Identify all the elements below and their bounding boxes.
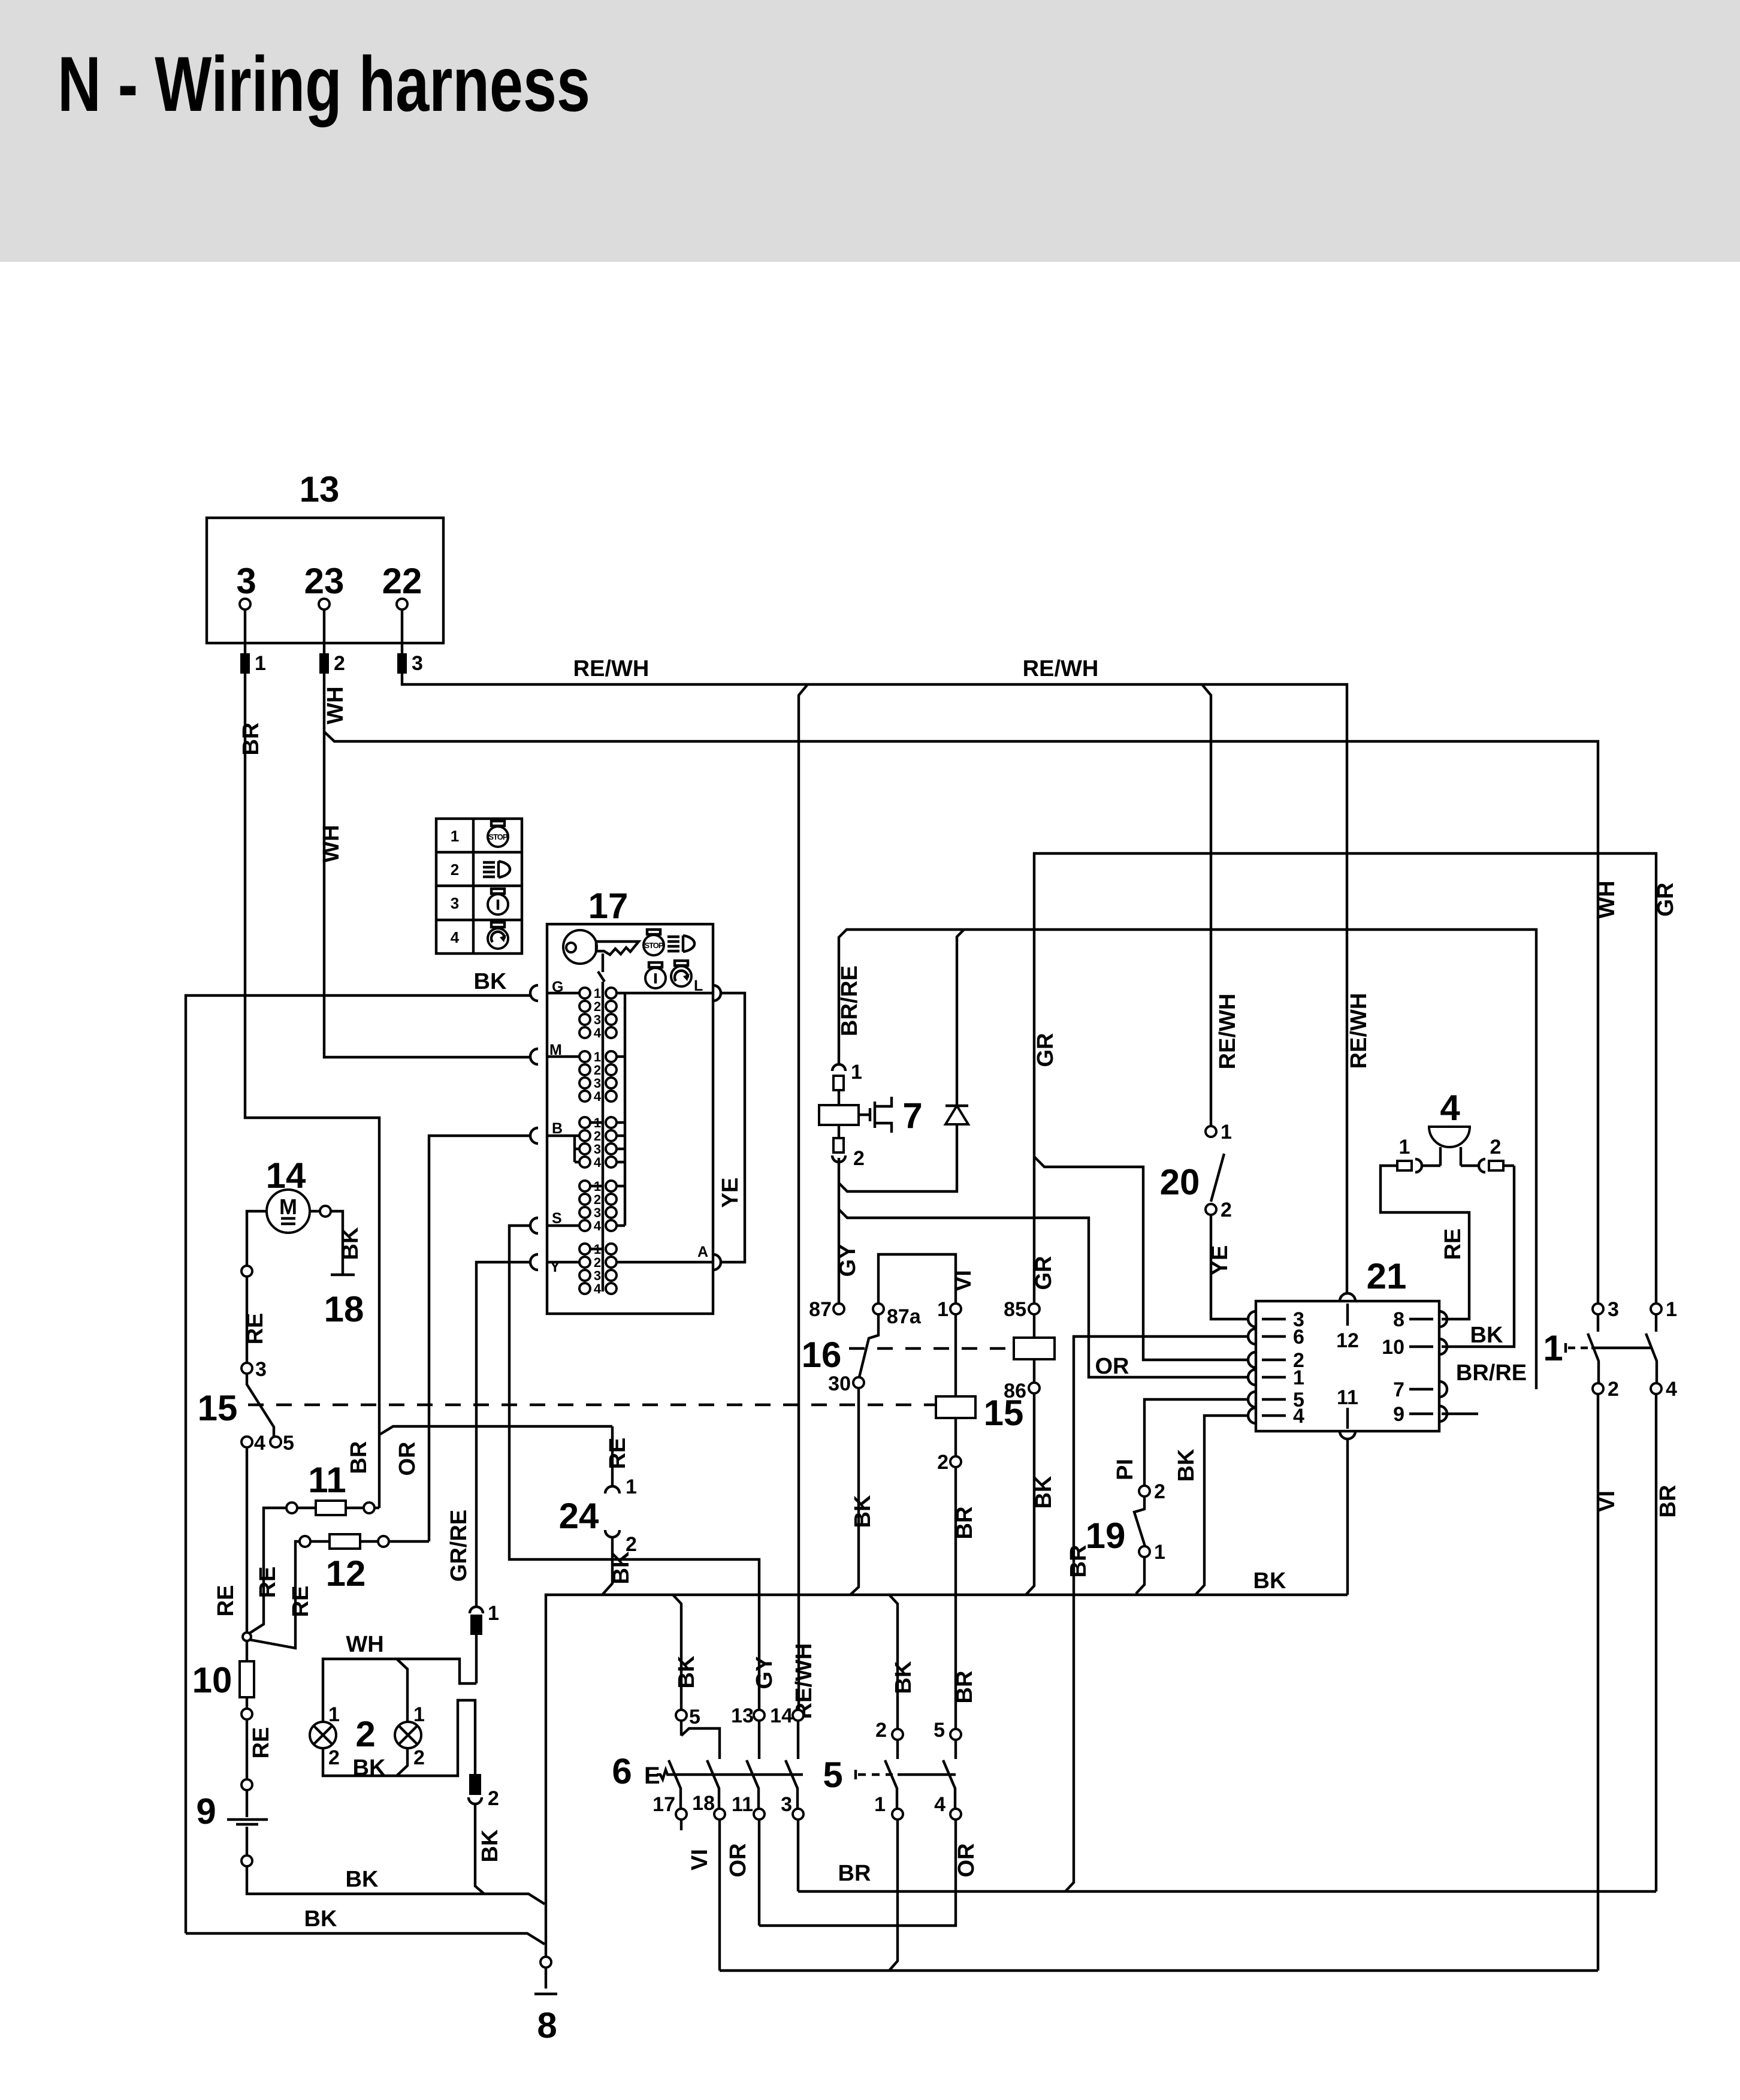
svg-text:RE: RE (255, 1567, 280, 1598)
svg-text:4: 4 (254, 1432, 265, 1455)
svg-text:OR: OR (954, 1843, 979, 1878)
svg-text:RE/WH: RE/WH (1023, 656, 1099, 681)
svg-text:BK: BK (474, 969, 507, 994)
icon headlight in 17 (667, 936, 694, 952)
svg-text:WH: WH (323, 686, 348, 724)
diode across solenoid (839, 930, 968, 1191)
lamp top rail wiring (323, 1659, 476, 1722)
svg-text:1: 1 (1399, 1136, 1410, 1158)
relay 16 contact 87 (809, 1298, 844, 1321)
svg-text:2: 2 (937, 1451, 948, 1474)
svg-text:11: 11 (732, 1793, 753, 1816)
svg-text:BK: BK (674, 1655, 699, 1688)
svg-text:BK: BK (1253, 1568, 1286, 1594)
svg-text:GY: GY (835, 1244, 860, 1277)
svg-text:87a: 87a (887, 1305, 922, 1328)
svg-text:9: 9 (196, 1791, 216, 1832)
svg-text:22: 22 (382, 561, 422, 601)
svg-text:5: 5 (823, 1755, 842, 1795)
wire BK from 30 to bus (850, 1388, 859, 1595)
svg-text:11: 11 (308, 1460, 346, 1500)
wire from pin 11 to BK bus (1346, 1439, 1349, 1595)
battery 9 (196, 1791, 268, 1866)
svg-text:VI: VI (951, 1270, 976, 1292)
svg-text:13: 13 (300, 469, 340, 509)
wire BR from pin 6 to BR bus (1065, 1336, 1249, 1891)
wire from pin 1 to VI bus (889, 1820, 898, 1971)
legend icon stop lamp (488, 821, 508, 847)
svg-text:4: 4 (1440, 1088, 1460, 1128)
svg-text:GR: GR (1033, 1033, 1058, 1067)
switch 15 contact (198, 1358, 294, 1455)
wire fuse 11 to junction (249, 1508, 286, 1634)
svg-text:7: 7 (902, 1096, 922, 1136)
svg-text:WH: WH (346, 1632, 383, 1657)
svg-text:RE/WH: RE/WH (1215, 994, 1240, 1070)
lamp bottom rail wiring (323, 1700, 475, 1776)
wire battery to BK bus (247, 1866, 545, 1904)
svg-text:BK: BK (1470, 1323, 1503, 1348)
switch 6 pole B blade and pin 18 (692, 1760, 725, 1820)
svg-text:BR: BR (346, 1441, 371, 1474)
switch 6 pole C pin 13, blade, pin 11 (731, 1704, 765, 1820)
svg-text:5: 5 (689, 1706, 700, 1728)
svg-text:1: 1 (1543, 1328, 1563, 1368)
svg-text:PI: PI (1113, 1459, 1138, 1480)
svg-text:19: 19 (1086, 1516, 1126, 1556)
horn 4 (1429, 1088, 1470, 1166)
wire OR to pin 1 (839, 1209, 1249, 1377)
wire OR from key B down to fuse 12 (429, 1136, 531, 1541)
relay 16 coil terminal 85 (1004, 1298, 1040, 1321)
icon flasher lamp in 17 (671, 961, 691, 986)
svg-text:3: 3 (255, 1358, 267, 1381)
svg-text:21: 21 (1367, 1256, 1407, 1296)
key switch shaft line (602, 982, 604, 1292)
svg-text:1: 1 (626, 1476, 637, 1498)
relay 15 coil (936, 1314, 1023, 1456)
branch to right lamp top (397, 1659, 407, 1722)
svg-text:17: 17 (652, 1793, 675, 1816)
wire BR/RE top (839, 930, 1536, 1389)
wire BK from key G to left rail (186, 995, 531, 1933)
branch BR to RE connector 24 (379, 1426, 612, 1435)
legend icon flasher lamp (488, 922, 508, 949)
switch 20 (1160, 1121, 1232, 1221)
wire PI from pin 5 to switch 19 (1144, 1399, 1249, 1486)
wire BR from coil to switch 5 pin 5 (954, 1467, 957, 1729)
svg-text:BR: BR (952, 1671, 977, 1704)
wire RE from horn to box 21 pin 8 (1380, 1166, 1469, 1319)
svg-text:11: 11 (1337, 1386, 1358, 1409)
switch 6 pole A blade and pin 17 (652, 1760, 687, 1830)
wire BK from pin 4 to bus (1196, 1416, 1249, 1594)
svg-text:GY: GY (752, 1657, 777, 1689)
svg-text:OR: OR (1095, 1354, 1129, 1379)
headlamps 2 (310, 1703, 425, 1769)
svg-text:RE: RE (1440, 1229, 1466, 1260)
switch 6 pole D pin 14, blade, pin 3 (770, 1704, 803, 1820)
svg-text:BK: BK (346, 1867, 379, 1892)
svg-text:13: 13 (731, 1704, 754, 1727)
svg-text:STOP: STOP (488, 832, 507, 841)
svg-text:1: 1 (1666, 1298, 1677, 1321)
svg-text:RE: RE (243, 1313, 268, 1345)
svg-text:BR: BR (838, 1861, 871, 1886)
relay 16 blade and contact 30 (802, 1314, 878, 1395)
GR/RE inline connector at lamps (470, 1602, 499, 1683)
svg-text:VI: VI (687, 1849, 712, 1870)
svg-text:4: 4 (594, 1281, 602, 1296)
switch 6 pole A pin 5 (676, 1706, 700, 1736)
box 21 pin 11 bottom (1337, 1386, 1358, 1439)
svg-text:4: 4 (594, 1155, 602, 1170)
svg-text:3: 3 (451, 894, 459, 912)
svg-text:BK: BK (850, 1495, 875, 1528)
legend table (436, 819, 522, 954)
svg-text:10: 10 (192, 1660, 232, 1700)
wire GR/RE from key Y down to lamps (476, 1262, 531, 1607)
svg-text:YE: YE (1207, 1245, 1232, 1276)
svg-text:6: 6 (612, 1751, 632, 1791)
wire BR from pin 1 down and over (245, 674, 379, 1508)
GR branch to box 21 pin 2 (1034, 1157, 1249, 1360)
wire WH from pin 2 down to key switch M (324, 674, 531, 1057)
BK bus middle (546, 1595, 1348, 1989)
solenoid 7 connector 1 (832, 1061, 862, 1090)
svg-text:2: 2 (853, 1147, 865, 1170)
svg-text:VI: VI (1594, 1490, 1620, 1512)
key switch left edge connector arcs (530, 985, 538, 1270)
svg-text:2: 2 (488, 1787, 499, 1810)
wire junction to fuse 10 (246, 1641, 248, 1661)
svg-text:A: A (697, 1244, 708, 1260)
svg-text:4: 4 (594, 1025, 602, 1040)
svg-text:2: 2 (334, 652, 345, 675)
switch 1 (1543, 1328, 1651, 1368)
box 21 right pin stubs and numbers (1382, 1308, 1433, 1426)
svg-text:1: 1 (874, 1793, 886, 1816)
relay 16 coil terminal 86 (1004, 1380, 1040, 1402)
relay 15 coil terminal 2 (937, 1451, 961, 1474)
switch 5 (823, 1755, 956, 1795)
svg-text:BR: BR (952, 1507, 977, 1540)
ground 8 (534, 1957, 557, 2045)
key switch right edge connector arcs (713, 985, 721, 1270)
svg-text:8: 8 (1393, 1308, 1404, 1331)
key icon (563, 930, 639, 972)
horn connector 1 (1397, 1136, 1440, 1172)
svg-text:2: 2 (355, 1714, 375, 1754)
ground 18 (324, 1275, 364, 1329)
svg-text:17: 17 (588, 886, 629, 926)
wire YE from switch 20 to box 21 pin 3 (1211, 1215, 1249, 1319)
svg-text:15: 15 (198, 1388, 238, 1428)
wire OR from pin 4 to OR bus (759, 1820, 956, 1926)
svg-text:4: 4 (934, 1793, 945, 1816)
solenoid 7 connector 2 (832, 1138, 865, 1170)
BK rail bottom to ground 8 (186, 1933, 545, 1944)
relay 16 coil (1014, 1314, 1055, 1383)
svg-text:BK: BK (1174, 1449, 1199, 1482)
svg-text:1: 1 (488, 1602, 499, 1625)
svg-text:1: 1 (1221, 1121, 1232, 1143)
svg-text:4: 4 (594, 1089, 602, 1104)
svg-text:24: 24 (559, 1496, 599, 1536)
svg-text:6: 6 (1293, 1326, 1304, 1348)
connector 24 (559, 1426, 637, 1594)
svg-text:BK: BK (338, 1227, 363, 1260)
branch from right lamp bottom (397, 1748, 407, 1776)
wire BK from bus to switch 5 pin 2 (889, 1595, 898, 1729)
wire GY from solenoid to relay 16 pin 87 (838, 1158, 840, 1304)
wire motor left to switch 15 (247, 1211, 267, 1266)
switch 1 pole A: pin 3, blade, pin 2 (1588, 1298, 1619, 1401)
svg-text:5: 5 (934, 1719, 945, 1742)
svg-text:RE/WH: RE/WH (573, 656, 650, 681)
svg-text:YE: YE (718, 1178, 743, 1208)
svg-text:WH: WH (319, 825, 344, 862)
key switch group M pins (549, 1042, 617, 1104)
BR bottom bus (798, 1890, 1656, 1893)
box 21 right pin arcs (1439, 1311, 1447, 1422)
dashed link relay 16 (849, 1347, 1014, 1350)
key switch internal wiring (547, 993, 713, 1262)
switch 6 (612, 1751, 803, 1791)
motor 14 (266, 1155, 310, 1233)
svg-text:BR/RE: BR/RE (1456, 1360, 1527, 1386)
wire YE loop from G to A (721, 993, 745, 1262)
dashed link of relay 15 (248, 1404, 936, 1406)
box 21 left pin stubs and numbers (1262, 1308, 1304, 1428)
svg-text:2: 2 (451, 861, 459, 879)
wire WH branch to the right side (324, 732, 1598, 1304)
svg-text:2: 2 (1221, 1199, 1232, 1221)
svg-text:2: 2 (1490, 1136, 1502, 1158)
svg-text:2: 2 (1608, 1378, 1619, 1401)
switch 1 pole B: pin 1, blade, pin 4 (1646, 1298, 1677, 1401)
connector pin 3 under box 13 (397, 610, 423, 675)
ignition key switch 17 (547, 886, 713, 1314)
svg-text:RE/WH: RE/WH (792, 1643, 817, 1719)
solenoid 7 (819, 1090, 923, 1138)
svg-text:RE: RE (249, 1727, 274, 1759)
solenoid actuator symbol (859, 1097, 892, 1133)
pin 9 stub wire (1442, 1413, 1478, 1415)
terminal 3 of box 13 (236, 561, 256, 610)
wire VI from pin 18 to bus (718, 1820, 721, 1971)
box 21 left pin arcs (1248, 1311, 1256, 1423)
svg-text:BR: BR (1656, 1485, 1681, 1518)
key switch group S pins (552, 1179, 617, 1233)
svg-text:WH: WH (1594, 880, 1620, 918)
svg-text:OR: OR (395, 1442, 420, 1476)
header band (0, 0, 1740, 262)
key switch group G pins (552, 979, 617, 1040)
svg-text:1: 1 (451, 827, 459, 845)
control unit 21 (1256, 1256, 1439, 1431)
svg-text:14: 14 (770, 1704, 793, 1727)
BK inline connector below lamps (469, 1774, 499, 1810)
svg-text:4: 4 (594, 1218, 602, 1233)
svg-text:GR/RE: GR/RE (446, 1510, 472, 1582)
connector pin 1 under box 13 (240, 610, 266, 675)
svg-text:7: 7 (1393, 1378, 1404, 1401)
svg-text:3: 3 (236, 561, 256, 601)
switch 6 bridge 5 to pole B (681, 1728, 720, 1759)
wire RE from switch 15 pin 4 down (246, 1447, 248, 1633)
fuse 11 (286, 1460, 379, 1515)
svg-text:18: 18 (324, 1289, 364, 1329)
svg-text:1: 1 (851, 1061, 862, 1084)
svg-text:3: 3 (412, 652, 423, 675)
svg-text:23: 23 (304, 561, 345, 601)
svg-text:20: 20 (1160, 1162, 1200, 1202)
wire fuse 12 to junction (250, 1541, 300, 1648)
svg-text:RE: RE (605, 1438, 630, 1470)
svg-text:BK: BK (609, 1551, 634, 1584)
svg-text:BR/RE: BR/RE (837, 965, 862, 1036)
svg-text:RE/WH: RE/WH (1346, 993, 1372, 1069)
svg-text:2: 2 (328, 1746, 340, 1769)
wire RE/WH branch to switch 20 (1202, 684, 1211, 1126)
svg-text:5: 5 (283, 1432, 294, 1455)
key switch blade (598, 971, 605, 982)
connector box 13 (207, 469, 443, 643)
svg-text:M: M (279, 1194, 297, 1219)
svg-text:10: 10 (1382, 1336, 1404, 1359)
wire BK lamps to bus (475, 1803, 484, 1894)
svg-text:1: 1 (1154, 1541, 1165, 1564)
svg-text:1: 1 (937, 1298, 948, 1321)
svg-text:GR: GR (1653, 883, 1678, 917)
svg-text:4: 4 (1666, 1378, 1677, 1401)
svg-text:8: 8 (537, 2005, 557, 2045)
key switch group Y pins (550, 1242, 617, 1296)
svg-text:4: 4 (1293, 1405, 1304, 1428)
svg-text:GR: GR (1031, 1256, 1056, 1290)
svg-text:BR: BR (238, 723, 264, 756)
svg-text:BK: BK (478, 1829, 503, 1862)
wire motor right to ground 18 (310, 1210, 320, 1212)
wire BK from bus to switch 6 pin 5 (673, 1595, 681, 1710)
svg-text:1: 1 (255, 652, 266, 675)
terminal 23 of box 13 (304, 561, 345, 610)
wire GR top horizontal (1034, 853, 1656, 1304)
svg-text:BK: BK (891, 1661, 916, 1694)
wire RE/WH main from pin 3 (402, 674, 1347, 1293)
svg-text:OR: OR (726, 1843, 751, 1878)
wire BK from 86 to bus (1026, 1393, 1034, 1595)
wire RE fuse 10 to battery (246, 1719, 248, 1779)
wire OR from pin 11 to bus (758, 1820, 760, 1926)
svg-text:87: 87 (809, 1298, 832, 1321)
fuse 10 (192, 1660, 254, 1719)
switch 19 (1086, 1480, 1165, 1594)
terminal 22 of box 13 (382, 561, 422, 610)
svg-text:9: 9 (1393, 1403, 1404, 1426)
wire BR from pin 3 to bus (797, 1820, 799, 1891)
svg-text:12: 12 (1336, 1329, 1359, 1352)
connector circle on RE wire (241, 1266, 252, 1277)
svg-text:2: 2 (413, 1746, 425, 1769)
wire GY from key S down to switch 6 pin 13 (509, 1226, 759, 1710)
svg-text:BK: BK (304, 1906, 337, 1932)
svg-text:18: 18 (692, 1792, 715, 1815)
svg-text:1: 1 (1293, 1366, 1304, 1389)
key switch group B pins (552, 1115, 617, 1170)
svg-text:3: 3 (781, 1793, 792, 1816)
box 21 pin 12 top (1336, 1293, 1359, 1352)
svg-text:85: 85 (1004, 1298, 1026, 1321)
wire RE to switch 15 pin 3 (246, 1277, 248, 1363)
svg-text:STOP: STOP (644, 941, 663, 950)
fuse 12 (300, 1534, 429, 1594)
relay 16 contact 87a (873, 1254, 956, 1328)
svg-text:RE: RE (288, 1586, 313, 1618)
wire VI from switch 1 pin 2 to VI bus (1597, 1394, 1599, 1971)
switch 5 pole 2: pin 5, blade, pin 4 (934, 1719, 961, 1820)
svg-text:2: 2 (875, 1719, 887, 1742)
switch 5 pole 1: pin 2, blade, pin 1 (874, 1719, 903, 1820)
svg-text:4: 4 (451, 928, 460, 946)
svg-text:1: 1 (328, 1703, 340, 1726)
legend icon position lamp (488, 889, 508, 915)
svg-text:16: 16 (802, 1335, 842, 1375)
VI bottom bus (720, 1969, 1598, 1972)
connector pin 2 under box 13 (319, 610, 345, 675)
svg-text:N - Wiring harness: N - Wiring harness (58, 40, 590, 128)
junction node (243, 1633, 251, 1641)
wire BK from horn to box 21 pin 10 (1442, 1166, 1514, 1347)
legend icon headlight (483, 861, 510, 877)
svg-text:30: 30 (828, 1372, 851, 1395)
svg-text:12: 12 (326, 1553, 366, 1594)
svg-text:1: 1 (413, 1703, 425, 1726)
horn connector 2 (1461, 1136, 1514, 1172)
svg-text:RE: RE (213, 1585, 238, 1617)
wire RE/WH branch to switch 6 pin 14 (799, 684, 808, 1710)
icon position lamp in 17 (645, 962, 666, 988)
svg-text:BK: BK (1031, 1476, 1056, 1508)
svg-text:2: 2 (1154, 1480, 1165, 1503)
svg-text:15: 15 (984, 1393, 1024, 1433)
icon stop lamp in 17 (644, 930, 664, 955)
relay 15 coil terminal 1 (937, 1298, 961, 1321)
svg-text:3: 3 (1608, 1298, 1619, 1321)
wire BR from switch 1 pin 4 to BR bus (1655, 1394, 1657, 1891)
